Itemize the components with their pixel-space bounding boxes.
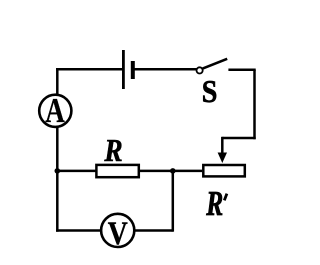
wire top-left horizontal: [56, 68, 123, 71]
svg-text:R: R: [206, 184, 224, 223]
wire right branch vertical: [172, 171, 175, 232]
label R prime tick: [224, 194, 227, 201]
wire right vertical: [253, 70, 256, 140]
rheostat R' body: [203, 165, 245, 176]
resistor R body: [96, 165, 138, 177]
svg-text:R: R: [104, 132, 123, 168]
battery short thick plate: [131, 61, 135, 79]
switch lever: [203, 59, 228, 69]
switch S pivot circle: [197, 67, 203, 73]
wiper stem: [221, 137, 224, 155]
ammeter A circle: [39, 95, 71, 127]
junction node right: [170, 168, 176, 174]
wire to wiper: [222, 137, 255, 140]
wiper arrowhead: [218, 153, 227, 164]
svg-text:A: A: [45, 91, 65, 130]
junction node left: [55, 168, 61, 174]
wire bottom horizontal: [56, 229, 173, 232]
wire battery to switch: [133, 68, 197, 71]
battery long plate: [122, 50, 125, 89]
voltmeter V circle: [101, 214, 134, 247]
wire middle horizontal: [57, 170, 202, 173]
svg-text:S: S: [202, 73, 218, 109]
wire switch to top-right corner: [228, 68, 255, 71]
svg-text:V: V: [108, 216, 128, 252]
wire left vertical: [56, 68, 59, 232]
